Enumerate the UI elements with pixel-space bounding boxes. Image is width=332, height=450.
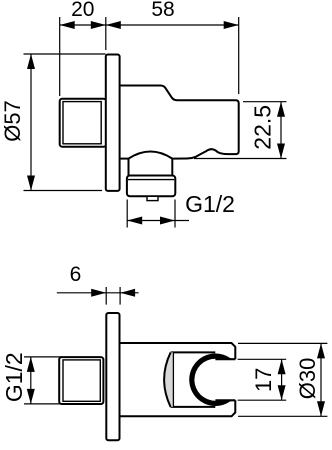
holder body lower outline front (119, 400, 235, 416)
arrow 22.5 down (277, 144, 285, 159)
C-ring inner hole (194, 359, 236, 401)
wall flange (front view) (106, 313, 119, 440)
arrow 20 left (60, 21, 75, 29)
extension line bottom of 22.5 (194, 158, 287, 160)
dim line 6 (57, 292, 139, 294)
svg-text:22.5: 22.5 (250, 105, 276, 150)
arrow D57 down (27, 176, 35, 191)
extension line shared 20/58 (105, 17, 107, 50)
arrow 20 right (91, 21, 106, 29)
dim line G1/2 nut (127, 220, 189, 222)
svg-text:G1/2: G1/2 (185, 191, 235, 217)
arrow nut right (160, 217, 175, 225)
C-ring holder cradle disc (189, 354, 241, 406)
svg-text:Ø57: Ø57 (0, 100, 25, 142)
nut top inner line (128, 179, 174, 181)
bracket arm lens shaded sliver (164, 352, 173, 407)
threaded inlet nipple (front view) outer (59, 357, 103, 404)
arrow 6 right (outside) (120, 289, 135, 297)
extension line nut left (126, 200, 128, 228)
dim line 58 (106, 24, 239, 26)
body bottom segment flange to boss (120, 158, 129, 160)
svg-text:6: 6 (70, 263, 82, 286)
arrow G1/2 down (27, 389, 35, 404)
outlet boss left side (128, 159, 130, 176)
arrow 58 right (224, 21, 239, 29)
extension line 17 bottom (238, 399, 287, 401)
extension line top of D57 (24, 53, 106, 55)
holder body upper outline front (119, 343, 235, 359)
bracket band bottom line (171, 406, 216, 408)
holder body (side silhouette) (120, 86, 239, 159)
nipple thread inner rect (63, 102, 101, 144)
extension line G1/2 bottom (24, 403, 62, 405)
dim line D57 (30, 54, 32, 191)
extension line 6 right (119, 287, 121, 305)
arrow 17 up (278, 359, 286, 374)
dim line 22.5 (280, 102, 282, 159)
svg-text:Ø30: Ø30 (295, 358, 320, 400)
extension line D30 bottom (238, 415, 327, 417)
extension line G1/2 top (24, 356, 62, 358)
threaded inlet nipple (side view) outer (60, 99, 106, 147)
extension line right of 58 (238, 17, 240, 94)
bracket arm lens chord (172, 352, 174, 407)
arrow D57 up (27, 54, 35, 69)
dim line 17 (281, 359, 283, 400)
extension line nut right (174, 200, 176, 228)
arrow nut left (127, 217, 142, 225)
dim line G1/2 (30, 357, 32, 404)
arrow G1/2 up (27, 357, 35, 372)
extension line bottom of D57 (24, 190, 103, 192)
arrow 58 left (106, 21, 121, 29)
extension line 6 left (105, 287, 107, 305)
extension line left of 20 (59, 17, 61, 96)
dim line D30 (320, 343, 322, 416)
extension line top of 22.5 (243, 101, 287, 103)
nipple thread inner rect front (63, 360, 100, 401)
arrow D30 up (317, 343, 325, 358)
notch bottom edge line (215, 399, 235, 401)
extension line D30 top (238, 342, 327, 344)
C-ring mouth notch (215, 359, 242, 400)
arrow 6 left (outside) (91, 289, 106, 297)
notch top edge line (215, 358, 235, 360)
svg-text:17: 17 (251, 368, 276, 392)
arrow 17 down (278, 385, 286, 400)
bracket arm lens arc (164, 352, 171, 407)
outlet nut (127, 176, 175, 197)
outlet boss right side (171, 159, 173, 176)
extension line 17 top (238, 358, 287, 360)
arrow 22.5 up (277, 102, 285, 117)
svg-text:58: 58 (151, 0, 174, 21)
wall flange (side view) (106, 55, 120, 191)
dim line 20 (60, 24, 106, 26)
outlet boss dome arc (129, 152, 173, 159)
outlet tip nib (147, 196, 158, 200)
bracket band top line (171, 351, 216, 353)
arrow D30 down (317, 401, 325, 416)
svg-text:G1/2: G1/2 (1, 352, 27, 402)
svg-text:20: 20 (71, 0, 94, 21)
